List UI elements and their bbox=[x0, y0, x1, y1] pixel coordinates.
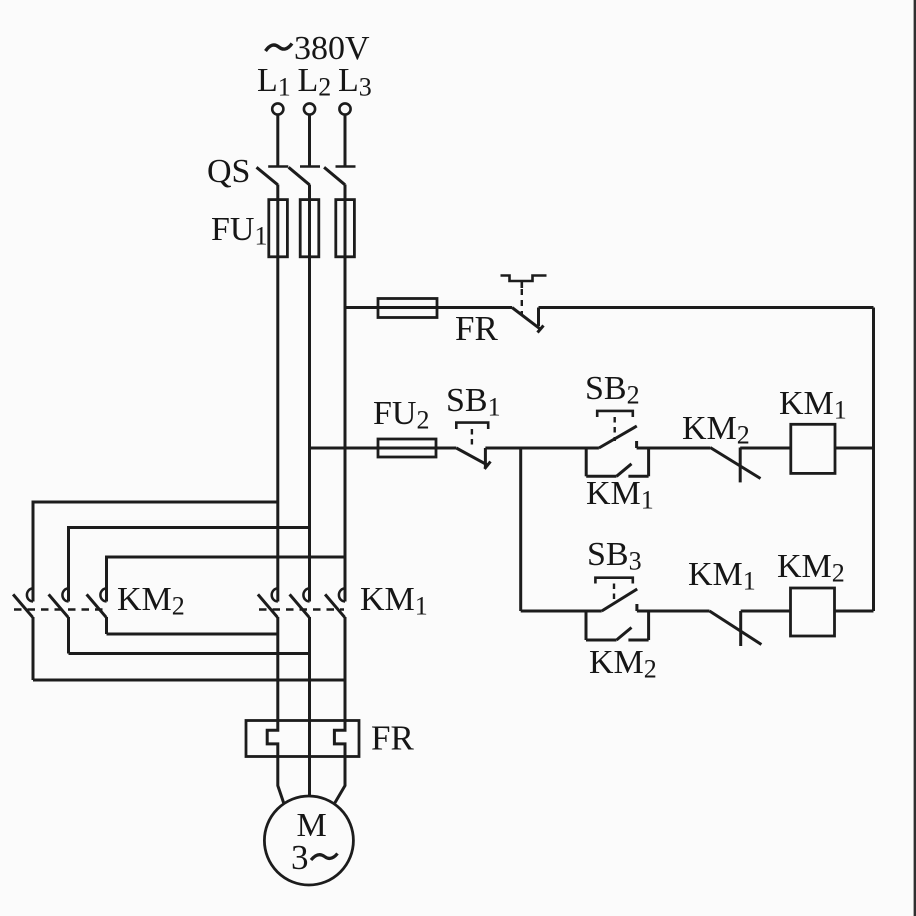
FR actuator dashed link bbox=[521, 289, 523, 316]
wire crossover F: L3 to left bus3 bbox=[107, 557, 346, 602]
pushbutton SB3 cap bbox=[595, 578, 632, 584]
pushbutton SB1 NC contact bbox=[456, 448, 490, 469]
wire row2 from L2 to FU2 bbox=[310, 447, 457, 450]
motor lead 1 bbox=[278, 757, 284, 804]
contactor KM2 main contact 2 bbox=[49, 588, 69, 617]
SB3 actuator dashed bbox=[613, 584, 615, 605]
svg-text:QS: QS bbox=[207, 153, 250, 190]
pushbutton SB3 NO contact bbox=[602, 589, 638, 611]
wire SB2 to KM2 NC bbox=[637, 447, 711, 450]
svg-text:SB3: SB3 bbox=[587, 536, 642, 576]
label KM2 (main) bbox=[117, 581, 185, 621]
svg-text:FR: FR bbox=[371, 719, 414, 758]
SB1 actuator dashed bbox=[471, 429, 473, 447]
contactor KM1 main contact 1 bbox=[258, 588, 278, 617]
wire L3 lower vertical to FR bbox=[344, 617, 347, 721]
svg-text:FR: FR bbox=[455, 309, 498, 348]
svg-text:FU2: FU2 bbox=[373, 395, 429, 435]
label L3 bbox=[338, 62, 372, 102]
label M bbox=[297, 807, 327, 844]
contactor KM1 main contact 2 bbox=[290, 588, 310, 617]
fuse FU1 pole 3 bbox=[336, 200, 355, 257]
svg-text:KM2: KM2 bbox=[589, 644, 657, 684]
left bus1 lower vertical bbox=[32, 617, 35, 680]
wire row3 start bbox=[521, 610, 602, 613]
wire L3 drop to QS bbox=[344, 115, 347, 167]
svg-text:SB1: SB1 bbox=[446, 382, 501, 422]
wire row1 to right bus bbox=[539, 306, 874, 309]
svg-text:SB2: SB2 bbox=[585, 370, 640, 410]
contactor KM2 main contact 1 bbox=[13, 588, 33, 617]
KM1 main linkage dashed bbox=[259, 608, 344, 610]
svg-text:KM1: KM1 bbox=[779, 385, 847, 425]
FR reset symbol bbox=[501, 276, 547, 289]
coil KM1 bbox=[791, 424, 835, 473]
wire QS to FU1 pole2 bbox=[308, 185, 311, 258]
wire coil KM1 to right bus bbox=[835, 447, 874, 450]
label 3~ bbox=[291, 838, 309, 877]
motor M circle bbox=[264, 796, 353, 885]
label KM2 (interlock row2) bbox=[682, 410, 750, 450]
svg-text:FU1: FU1 bbox=[211, 211, 267, 251]
terminal L1 bbox=[272, 103, 283, 114]
wire phase L3 vertical bbox=[344, 257, 347, 602]
svg-text:KM2: KM2 bbox=[682, 410, 750, 450]
contact KM1 self-hold (parallel SB2) bbox=[586, 448, 648, 476]
label ~380V bbox=[294, 30, 370, 67]
wire crossover D: bus2 to L2 bbox=[69, 652, 310, 655]
wire KM1 NC to coil KM2 bbox=[741, 610, 791, 613]
terminal L2 bbox=[304, 103, 315, 114]
wire L2 drop to QS bbox=[308, 115, 311, 167]
wire QS to FU1 pole3 bbox=[344, 185, 347, 258]
wire L1 lower vertical to FR bbox=[276, 617, 279, 721]
label KM2 (self-hold) bbox=[589, 644, 657, 684]
label SB2 bbox=[585, 370, 640, 410]
wire crossover B: L2 to left bus2 bbox=[69, 528, 310, 602]
contactor KM1 main contact 3 bbox=[325, 588, 345, 617]
wire crossover C: bus3 to L1 bbox=[107, 633, 278, 636]
label QS bbox=[207, 153, 250, 190]
contact KM1 NC interlock bbox=[710, 611, 762, 646]
FR heater element phase1 jog bbox=[267, 721, 278, 757]
fuse FU2 bbox=[378, 439, 436, 457]
fuse FU1 pole 1 bbox=[269, 200, 288, 257]
svg-text:KM2: KM2 bbox=[777, 548, 845, 588]
left bus2 lower vertical bbox=[67, 617, 70, 654]
label SB1 bbox=[446, 382, 501, 422]
wire phase2 through FR bbox=[308, 721, 311, 796]
coil KM2 bbox=[791, 588, 835, 636]
FR heater element phase3 jog bbox=[334, 721, 345, 757]
junction drop wire to row3 bbox=[519, 448, 522, 611]
label KM2 (coil) bbox=[777, 548, 845, 588]
svg-text:L2: L2 bbox=[298, 62, 332, 102]
label FU2 bbox=[373, 395, 429, 435]
wire SB1 to SB2 with junction node bbox=[485, 447, 599, 450]
contact KM2 self-hold (parallel SB3) bbox=[586, 611, 649, 640]
svg-text:KM1: KM1 bbox=[586, 475, 654, 515]
switch QS pole 3 bbox=[324, 167, 355, 185]
motor tilde bbox=[311, 854, 338, 861]
label FR (heater) bbox=[371, 719, 414, 758]
fuse on FR row bbox=[378, 299, 437, 318]
wire L1 drop to QS bbox=[276, 115, 279, 167]
label KM1 (interlock row3) bbox=[688, 556, 756, 596]
motor lead 3 bbox=[335, 757, 345, 804]
contact KM2 NC interlock bbox=[710, 448, 760, 483]
wire SB3 to KM1 NC bbox=[637, 610, 710, 613]
svg-text:3: 3 bbox=[291, 838, 309, 877]
SB2 actuator dashed bbox=[614, 417, 616, 441]
wire L2 lower vertical to FR bbox=[308, 617, 311, 721]
border right edge bbox=[914, 0, 916, 916]
right bus vertical bbox=[872, 308, 875, 612]
thermal relay FR heater box bbox=[246, 721, 359, 757]
label KM1 (main) bbox=[360, 581, 428, 621]
thermal relay FR NC contact bbox=[512, 308, 544, 333]
label KM1 (coil) bbox=[779, 385, 847, 425]
label L2 bbox=[298, 62, 332, 102]
wire phase L2 vertical bbox=[308, 257, 311, 602]
svg-text:KM2: KM2 bbox=[117, 581, 185, 621]
wire KM2 NC to coil KM1 bbox=[740, 447, 791, 450]
pushbutton SB1 cap bbox=[456, 423, 488, 429]
wire phase L1 vertical bbox=[276, 257, 279, 602]
svg-text:L3: L3 bbox=[338, 62, 372, 102]
pushbutton SB2 cap bbox=[597, 411, 633, 417]
wire crossover A: L1 to left bus1 bbox=[33, 502, 278, 602]
KM2 main linkage dashed bbox=[14, 608, 104, 610]
terminal L3 bbox=[339, 103, 350, 114]
label KM1 (self-hold) bbox=[586, 475, 654, 515]
wire crossover E: bus1 to L3 bbox=[33, 679, 345, 682]
svg-text:KM1: KM1 bbox=[360, 581, 428, 621]
label L1 bbox=[257, 62, 291, 102]
fuse FU1 pole 2 bbox=[300, 200, 319, 257]
switch QS pole 1 bbox=[257, 167, 289, 185]
wire coil KM2 to right bus bbox=[835, 610, 874, 613]
svg-text:KM1: KM1 bbox=[688, 556, 756, 596]
svg-text:L1: L1 bbox=[257, 62, 291, 102]
switch QS pole 2 bbox=[289, 167, 320, 185]
label FU1 bbox=[211, 211, 267, 251]
contactor KM2 main contact 3 bbox=[87, 588, 107, 617]
label FR (contact) bbox=[455, 309, 498, 348]
pushbutton SB2 NO contact bbox=[599, 426, 637, 448]
tilde of 380V bbox=[266, 44, 293, 52]
wire QS to FU1 pole1 bbox=[276, 185, 279, 258]
wire row1 from L3 to FU fuse bbox=[345, 306, 512, 309]
label SB3 bbox=[587, 536, 642, 576]
left bus3 lower vertical bbox=[105, 617, 108, 634]
